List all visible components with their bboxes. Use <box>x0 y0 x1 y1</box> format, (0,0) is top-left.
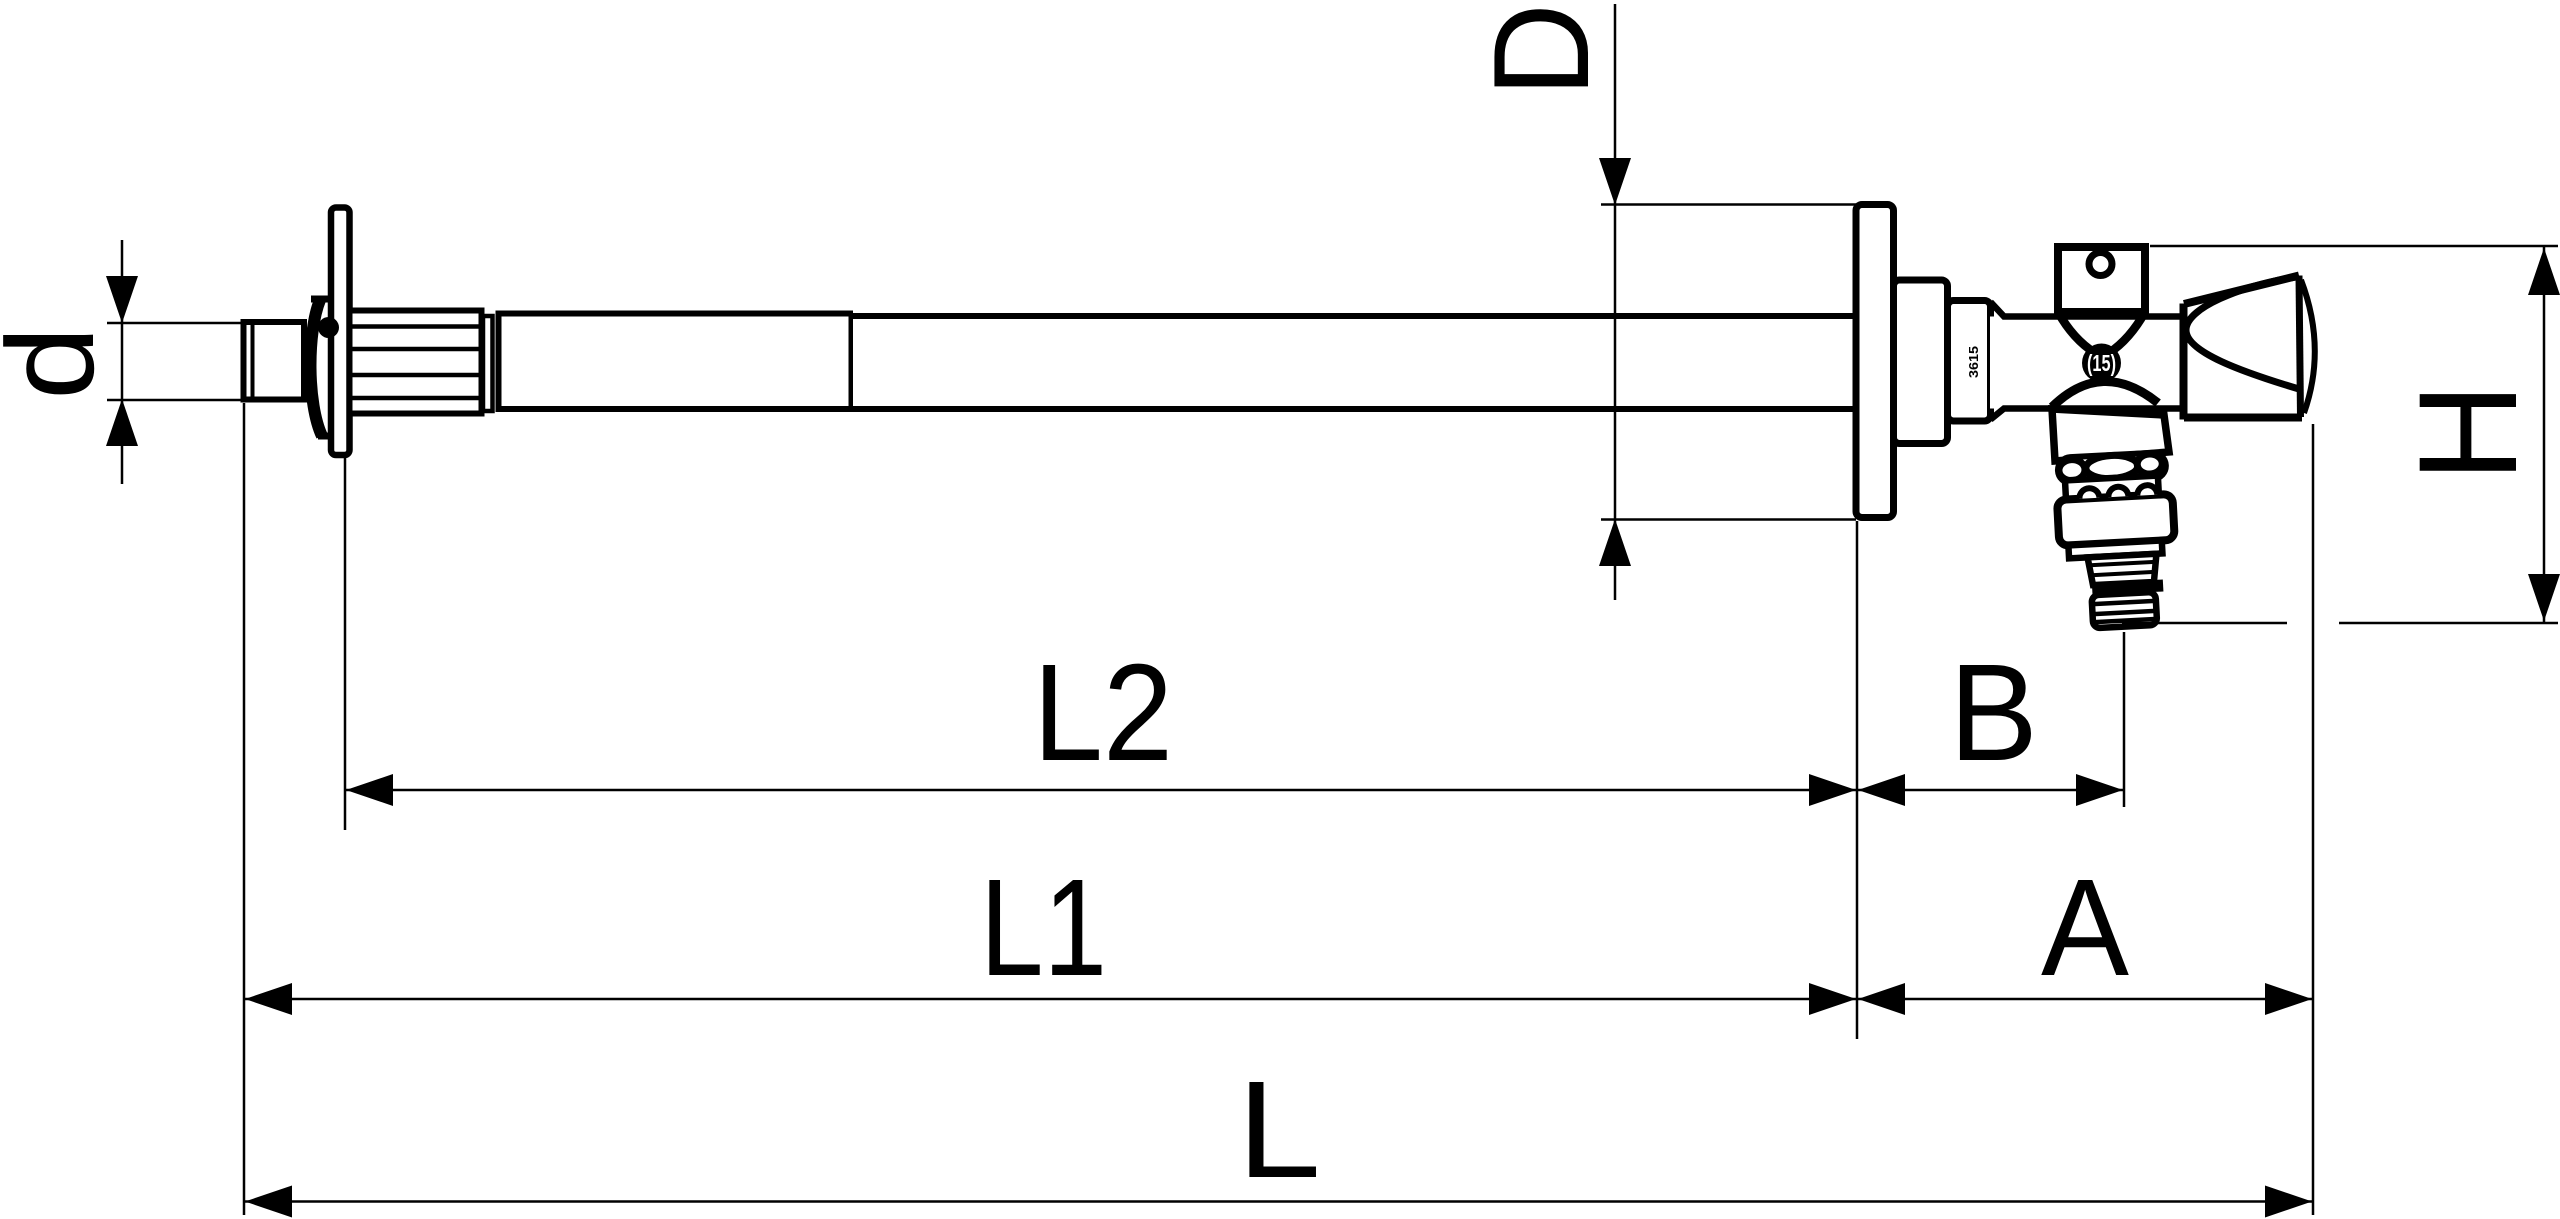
screw dot on plate <box>318 317 339 338</box>
svg-text:A: A <box>2041 851 2129 1005</box>
dimension line L <box>244 1200 2313 1203</box>
L right arrow <box>2265 1186 2312 1218</box>
tab hole <box>2089 253 2112 276</box>
label L <box>1237 1053 1321 1207</box>
dimension D extension line top <box>1601 203 1856 206</box>
dimension H top arrow <box>2528 248 2560 295</box>
dimension D top arrow <box>1599 158 1631 205</box>
threaded inlet stub <box>244 322 305 400</box>
label D <box>1465 3 1617 97</box>
svg-text:L1: L1 <box>980 851 1107 1005</box>
dimension D extension line bottom <box>1601 518 1856 521</box>
A right arrow <box>2265 983 2312 1015</box>
svg-text:d: d <box>0 326 120 400</box>
svg-text:3615: 3615 <box>1966 346 1981 378</box>
label B <box>1949 636 2038 790</box>
hose union fitting stack <box>2055 452 2179 630</box>
svg-text:D: D <box>1465 3 1617 97</box>
mounting tab <box>2058 247 2145 312</box>
label H <box>2389 383 2546 482</box>
svg-text:(15): (15) <box>2087 350 2116 376</box>
dimension d top arrow <box>106 276 138 323</box>
dimension line L2/B <box>345 789 2124 792</box>
extension line from hose connector axis <box>2123 632 2126 807</box>
svg-text:B: B <box>1949 636 2038 790</box>
svg-text:L: L <box>1237 1053 1321 1207</box>
dimension D bottom arrow <box>1599 519 1631 566</box>
label d <box>0 326 120 400</box>
dimension H extension line top <box>2150 245 2558 248</box>
svg-text:L2: L2 <box>1033 636 1173 790</box>
valve upper V right curve <box>2109 312 2145 353</box>
dimension d extension line bottom <box>107 399 242 402</box>
wall mounting plate <box>331 208 350 456</box>
extension line from stub (L/L1 left) <box>243 403 246 1215</box>
extension line from handle tip (right) <box>2312 424 2315 1215</box>
dimension D vertical line <box>1614 4 1617 600</box>
L1 left arrow <box>245 983 292 1015</box>
pipe segment 2 <box>851 316 1857 409</box>
dimension H bottom arrow <box>2528 574 2560 621</box>
extension line from flange (wall face) <box>1856 521 1859 1039</box>
bell flare of wall plate <box>309 299 334 436</box>
valve upper V left curve <box>2058 312 2095 353</box>
label L1 <box>980 851 1107 1005</box>
dimension d vertical line <box>121 240 124 484</box>
B left arrow <box>1858 774 1905 806</box>
A left arrow <box>1858 983 1905 1015</box>
body block behind flange <box>1894 280 1948 444</box>
wall flange plate <box>1856 205 1894 518</box>
valve barrel <box>1990 302 2186 420</box>
handle knob <box>2184 275 2315 420</box>
valve outlet dome <box>2052 381 2158 407</box>
label A <box>2041 851 2129 1005</box>
pipe segment 1 <box>496 314 854 410</box>
hose union cup <box>2052 409 2169 461</box>
extension line from wall plate (L2 left) <box>344 457 347 830</box>
dimension d extension line top <box>107 322 242 325</box>
dimension H vertical line <box>2543 246 2546 623</box>
dimension line L1/A <box>244 998 2313 1001</box>
L2 left arrow <box>346 774 393 806</box>
knurled nut <box>350 311 482 414</box>
L1 right arrow <box>1809 983 1856 1015</box>
L left arrow <box>245 1186 292 1218</box>
dimension d bottom arrow <box>106 399 138 446</box>
label L2 <box>1033 636 1173 790</box>
L2 right arrow <box>1809 774 1856 806</box>
svg-text:H: H <box>2389 383 2546 482</box>
marked body block <box>1948 301 1991 422</box>
pipe junction <box>849 314 854 410</box>
dimension H extension line bottom <box>2122 622 2558 625</box>
valve ball with logo <box>2082 344 2121 383</box>
B right arrow <box>2076 774 2123 806</box>
washer ring <box>483 316 493 411</box>
